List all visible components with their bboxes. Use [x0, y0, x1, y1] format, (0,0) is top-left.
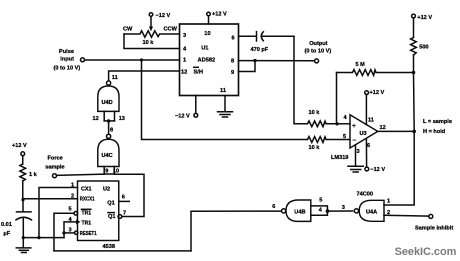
comparator U3 LM319: [350, 115, 378, 148]
svg-text:µF: µF: [4, 231, 11, 237]
wire U1 pin 9 loop: [239, 61, 256, 72]
svg-text:+12 V: +12 V: [212, 12, 227, 18]
svg-text:sample: sample: [45, 165, 64, 171]
U3 labels: [331, 115, 386, 161]
wire bottom rail: [54, 250, 191, 252]
-12V supply terminal for pot wiper: [149, 13, 153, 32]
svg-text:10 k: 10 k: [309, 145, 321, 151]
0.01 uF value label: [1, 222, 12, 237]
node pin8/pin9 junction: [253, 59, 256, 62]
wire U3 output pin 12: [378, 130, 414, 132]
wire pot left end to U1 pin 4: [124, 34, 180, 49]
svg-text:U4D: U4D: [102, 100, 113, 106]
svg-text:10 k: 10 k: [143, 40, 155, 46]
resistor 500: [411, 38, 417, 56]
svg-text:4: 4: [183, 46, 187, 52]
wire pulse input to U1 pin 1: [85, 59, 180, 61]
pin 4 trigger arrow: [76, 220, 81, 225]
svg-text:10 k: 10 k: [309, 110, 321, 116]
wire U1 pin 8 to output terminal: [239, 60, 315, 62]
svg-text:TR1: TR1: [82, 210, 92, 216]
wire +12V to 1k: [22, 156, 24, 164]
svg-text:LM319: LM319: [331, 155, 348, 161]
svg-text:U2: U2: [103, 186, 110, 192]
-12V terminal below U1: [194, 113, 198, 117]
svg-text:5: 5: [319, 197, 322, 203]
ground (U3): [348, 166, 363, 172]
Q1bar bubble pin 7: [118, 215, 122, 219]
svg-text:3: 3: [69, 227, 72, 233]
wire U1 pin 11 to ground: [224, 96, 226, 112]
U2 pin number labels left: [69, 183, 75, 234]
svg-text:U3: U3: [360, 131, 367, 137]
svg-text:1: 1: [71, 183, 74, 189]
svg-text:6: 6: [367, 143, 370, 149]
pin 5 input bubble: [74, 212, 78, 216]
svg-text:S/H: S/H: [194, 70, 203, 76]
wire RC node to U2 pin 2: [23, 198, 78, 200]
node U4D inputs tie: [107, 119, 111, 123]
output terminal: [315, 59, 319, 63]
svg-text:11: 11: [220, 88, 226, 94]
ground (bottom left): [16, 238, 31, 253]
NAND gate U4B (faces left): [282, 200, 311, 221]
svg-text:(0 to 10 V): (0 to 10 V): [305, 48, 332, 54]
node TR1/RESET1 tie: [62, 231, 65, 234]
svg-text:0.01: 0.01: [1, 222, 12, 228]
force sample labels: [45, 155, 64, 170]
svg-text:13: 13: [119, 116, 125, 122]
U2 internal labels: [80, 186, 115, 237]
svg-text:9: 9: [105, 169, 108, 175]
svg-text:−12 V: −12 V: [175, 114, 190, 120]
svg-text:500: 500: [419, 45, 428, 51]
NAND gate U4D: [98, 81, 119, 112]
svg-text:U4B: U4B: [294, 209, 305, 215]
pin 3 reset bubble: [75, 231, 78, 234]
svg-text:11: 11: [368, 117, 374, 123]
pulse input terminal: [81, 58, 85, 62]
svg-text:6: 6: [232, 36, 235, 42]
svg-text:CX1: CX1: [81, 186, 92, 192]
svg-text:U4C: U4C: [102, 153, 113, 159]
svg-text:H = hold: H = hold: [423, 129, 446, 135]
svg-text:2: 2: [71, 194, 74, 200]
svg-text:1: 1: [387, 199, 390, 205]
resistor 10k (to + input): [308, 121, 338, 127]
svg-text:TR1: TR1: [82, 220, 92, 226]
svg-text:1 k: 1 k: [29, 172, 38, 178]
svg-text:6: 6: [122, 194, 125, 200]
svg-text:4: 4: [319, 208, 323, 214]
wire CX return up to U2 pin 1: [39, 188, 78, 238]
svg-text:6: 6: [272, 204, 275, 210]
svg-text:10: 10: [204, 31, 210, 37]
svg-text:RXCX1: RXCX1: [80, 197, 95, 203]
op-amp U1 AD582 box: [180, 24, 239, 96]
wire force sample to U4C inputs: [57, 174, 105, 175]
svg-text:Force: Force: [48, 155, 63, 161]
svg-text:+12 V: +12 V: [417, 15, 432, 21]
svg-text:12: 12: [181, 70, 187, 76]
wire 1k to RC node: [22, 181, 24, 200]
svg-text:Q1: Q1: [107, 200, 114, 206]
svg-text:1: 1: [183, 58, 186, 64]
svg-text:input: input: [60, 56, 74, 62]
svg-text:3: 3: [342, 205, 345, 211]
resistor 1k: [20, 164, 26, 181]
wire to RESET1 pin: [64, 232, 75, 234]
svg-text:AD582: AD582: [198, 58, 216, 64]
+12V terminal above U1: [207, 12, 211, 24]
svg-text:12: 12: [93, 116, 99, 122]
overbar on S of S/H: [194, 66, 199, 68]
wire U3 pin 6 to -12V: [365, 139, 367, 167]
wire pulse junction down and right to 10k: [142, 60, 308, 140]
wire U4C output up to U4D inputs: [108, 121, 110, 134]
svg-text:4538: 4538: [103, 244, 115, 250]
svg-text:74C00: 74C00: [357, 192, 373, 198]
svg-text:Output: Output: [309, 41, 327, 47]
wire +12V to 500: [413, 18, 415, 38]
wire U2 pin 5 to bottom rail: [54, 213, 74, 251]
svg-text:2: 2: [387, 210, 390, 216]
force sample terminal: [53, 174, 57, 178]
ground (U1): [218, 112, 233, 117]
svg-text:9: 9: [231, 70, 234, 76]
overbar on TR1 (pin5): [82, 208, 91, 210]
svg-text:8: 8: [231, 59, 234, 65]
svg-text:5 M: 5 M: [356, 62, 366, 68]
svg-text:3: 3: [183, 33, 186, 39]
node output junction: [412, 130, 416, 134]
svg-text:4: 4: [344, 115, 348, 121]
svg-text:L = sample: L = sample: [423, 119, 452, 125]
wire U1 to -12V below: [195, 96, 197, 114]
wire U4C inputs to Q1bar of U2: [114, 174, 144, 216]
node pulse junction: [140, 58, 143, 61]
+12V terminal top right: [412, 14, 416, 18]
svg-text:+: +: [352, 121, 357, 130]
wire TR1 pin 4: [64, 222, 76, 233]
svg-text:CW: CW: [123, 26, 133, 32]
svg-text:5: 5: [343, 134, 346, 140]
wire rail up to U4B output: [191, 211, 281, 251]
node U4B inputs tie: [326, 209, 330, 213]
svg-text:U4A: U4A: [366, 209, 377, 215]
-12V terminal below U3: [365, 167, 369, 171]
wire corner up to reset node: [63, 233, 65, 238]
svg-text:7: 7: [123, 211, 126, 217]
svg-text:(0 to 10 V): (0 to 10 V): [54, 65, 81, 71]
wire vertical from 470pF line to 10k upper: [294, 36, 308, 124]
node cap bottom junction: [22, 236, 25, 239]
svg-text:+12 V: +12 V: [12, 143, 27, 149]
svg-text:−: −: [352, 136, 357, 145]
resistor 10k (to - input): [308, 137, 351, 143]
svg-text:Q1: Q1: [108, 214, 115, 220]
svg-text:−12 V: −12 V: [156, 13, 171, 19]
sample inhibit terminal: [429, 214, 433, 218]
+12V terminal above U3: [365, 91, 369, 95]
capacitor 0.01uF: [16, 200, 32, 238]
node RC junction: [21, 198, 24, 201]
svg-text:+12 V: +12 V: [370, 90, 385, 96]
wire U4D output to U1 pin 12: [109, 71, 180, 81]
svg-text:Pulse: Pulse: [59, 49, 74, 55]
U4C input stubs pins 9,10: [103, 167, 105, 175]
potentiometer 10k: [124, 31, 180, 37]
svg-text:CCW: CCW: [164, 26, 178, 32]
wire + input: [337, 123, 350, 125]
svg-text:11: 11: [112, 75, 118, 81]
one-shot U2 4538 box: [78, 181, 119, 241]
svg-text:−12 V: −12 V: [370, 167, 385, 173]
wire +12V to U3 pin 11: [365, 95, 367, 125]
wire bottom node to reset corner: [23, 237, 64, 239]
wire U3 pin 3 to ground: [355, 145, 357, 166]
Q1 output stub pin 6: [119, 200, 130, 202]
node + input junction: [335, 122, 338, 125]
NAND gate U4C: [98, 134, 119, 166]
resistor 5M feedback: [337, 70, 414, 124]
Output labels: [305, 41, 332, 55]
svg-text:3: 3: [357, 149, 360, 155]
svg-text:470 pF: 470 pF: [251, 47, 269, 53]
wire U4A pin 1 from comparator node: [384, 132, 414, 206]
svg-text:U1: U1: [201, 46, 208, 52]
NAND gate U4A (faces left): [354, 200, 384, 221]
node 5M right junction: [412, 71, 416, 75]
svg-text:SeekIC.com: SeekIC.com: [395, 246, 457, 258]
node CX return junction: [37, 236, 40, 239]
wire U4A pin 2 to sample inhibit terminal: [384, 214, 429, 217]
svg-text:Sample inhibit: Sample inhibit: [415, 225, 453, 231]
svg-text:8: 8: [110, 128, 113, 134]
U4B input wires pins 5,4: [311, 206, 328, 215]
U1 pin labels: [181, 31, 235, 94]
wire 500 down through junctions to U4A pin 1: [413, 55, 415, 73]
+12V terminal left: [21, 152, 25, 156]
pulse input labels: [54, 49, 81, 72]
wire U4B inputs to U4A output: [327, 210, 352, 212]
capacitor 470pF: [239, 32, 295, 41]
svg-text:5: 5: [69, 206, 72, 212]
svg-text:RESET1: RESET1: [80, 231, 97, 237]
svg-text:12: 12: [380, 125, 386, 131]
U4D input stubs pins 12,13: [103, 111, 105, 121]
